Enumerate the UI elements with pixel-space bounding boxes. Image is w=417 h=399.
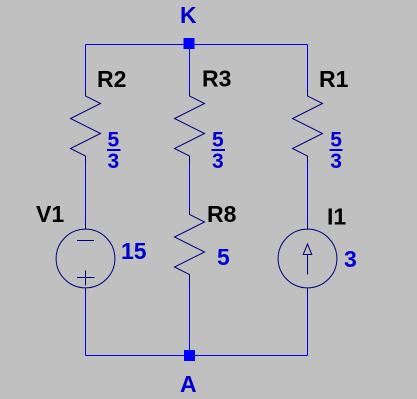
svg-text:3: 3 <box>344 246 357 272</box>
svg-text:3: 3 <box>330 150 342 173</box>
svg-text:R8: R8 <box>207 201 237 227</box>
svg-text:K: K <box>180 2 197 28</box>
svg-text:5: 5 <box>217 244 230 270</box>
svg-text:R3: R3 <box>202 66 231 92</box>
svg-text:15: 15 <box>121 238 147 264</box>
svg-text:I1: I1 <box>327 204 346 230</box>
svg-text:V1: V1 <box>36 201 64 227</box>
svg-text:5: 5 <box>212 129 224 152</box>
svg-text:3: 3 <box>108 150 120 173</box>
svg-text:3: 3 <box>212 150 224 173</box>
svg-text:R2: R2 <box>97 66 126 92</box>
svg-text:5: 5 <box>330 129 342 152</box>
svg-text:R1: R1 <box>319 66 349 92</box>
svg-text:5: 5 <box>108 129 120 152</box>
svg-text:A: A <box>180 371 197 397</box>
